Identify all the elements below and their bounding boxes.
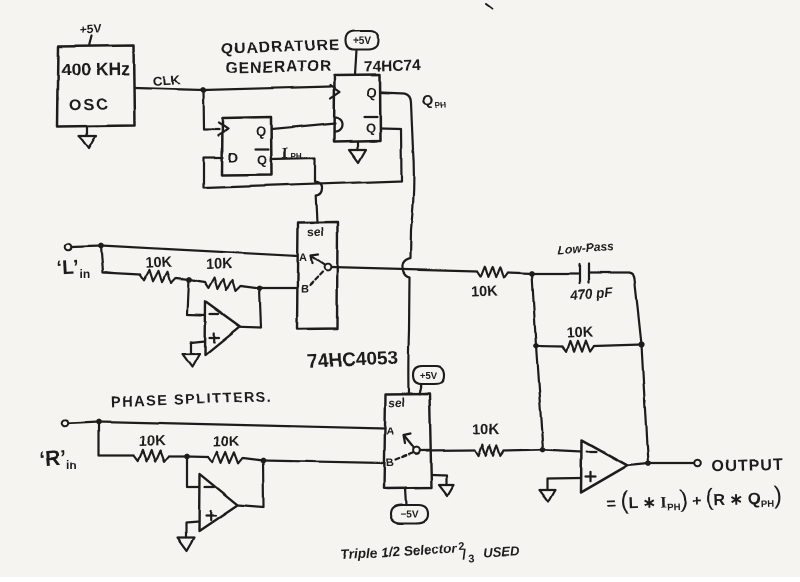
FF2 label Qbar xyxy=(364,117,377,136)
svg-text:I: I xyxy=(282,145,288,162)
node CLK junction xyxy=(200,87,206,93)
node L input junction xyxy=(98,243,104,249)
label QUADRATURE xyxy=(221,37,341,58)
svg-text:PH: PH xyxy=(435,101,446,110)
node RY junction xyxy=(260,458,266,464)
node RX junction xyxy=(184,454,190,460)
svg-text:sel: sel xyxy=(307,225,324,240)
wire FF2 Qbar feedback to FF1 D xyxy=(204,128,402,188)
wire U2 non-inverting to ground xyxy=(191,341,205,354)
label OSC xyxy=(69,96,110,114)
label node I_PH xyxy=(282,145,302,162)
sel1 label B xyxy=(301,284,309,296)
label 74HC74 xyxy=(364,57,422,76)
FF1 label Qbar xyxy=(256,149,269,168)
FF2 D input symbol xyxy=(335,118,342,132)
flip-flop FF1 (74HC74 half A) box xyxy=(222,117,272,176)
sel2 label A xyxy=(386,426,394,438)
resistor R5 10K (I-path) xyxy=(477,266,508,278)
node N2 junction xyxy=(638,341,644,347)
label R5 10K xyxy=(470,284,498,301)
svg-text:OUTPUT: OUTPUT xyxy=(712,456,784,475)
label 74HC4053 xyxy=(307,348,399,374)
svg-text:10K: 10K xyxy=(138,434,166,451)
svg-text:400 KHz: 400 KHz xyxy=(61,58,130,79)
resistor R2 10K (L) xyxy=(205,278,241,292)
svg-text:A: A xyxy=(386,426,394,438)
wire CLK down to FF1 clock xyxy=(203,90,219,130)
svg-text:OSC: OSC xyxy=(69,96,110,114)
svg-text:74HC74: 74HC74 xyxy=(364,57,422,76)
U5 plus sign xyxy=(586,472,596,481)
svg-text:‘R’: ‘R’ xyxy=(38,447,67,472)
svg-text:3: 3 xyxy=(469,553,476,565)
power +5V supply (OSC) xyxy=(79,21,102,46)
svg-text:10K: 10K xyxy=(145,254,173,271)
U2 minus sign xyxy=(210,313,219,315)
label Low-Pass xyxy=(557,240,614,257)
node LX junction xyxy=(186,277,192,283)
wire R1 to node LX xyxy=(176,278,189,280)
wire N3 to R6 xyxy=(536,345,562,348)
node summing junction xyxy=(540,447,546,453)
wire node N1 to capacitor C1 xyxy=(532,272,578,274)
sel2 label B xyxy=(386,457,394,469)
label output formula xyxy=(606,482,782,515)
wire right rail N2 down to output node xyxy=(642,345,649,464)
sel2 wiper pole xyxy=(413,447,420,454)
ground (FF2) xyxy=(349,142,366,163)
node N3 junction xyxy=(533,343,539,349)
node N1 junction xyxy=(529,271,535,277)
U2 plus sign xyxy=(210,333,220,342)
oscillator U1 400 KHz OSC box xyxy=(58,46,135,127)
sel2 arrow to A xyxy=(404,434,414,448)
wire CLK (OSC to node) xyxy=(135,88,204,90)
svg-text:B: B xyxy=(386,457,394,469)
resistor R1 10K (L) xyxy=(140,270,176,283)
FF1 D input symbol xyxy=(228,149,238,165)
svg-text:Low-Pass: Low-Pass xyxy=(557,240,614,257)
svg-text:PH: PH xyxy=(291,152,302,161)
label 400 KHz xyxy=(61,58,130,79)
wire R7 to summing node xyxy=(504,450,543,451)
wire L input to node xyxy=(72,246,101,247)
label R3 10K xyxy=(138,434,166,451)
svg-text:in: in xyxy=(80,267,91,281)
svg-text:‘L’: ‘L’ xyxy=(56,256,79,279)
label PHASE SPLITTERS xyxy=(111,389,273,411)
op-amp U3 (R inverter) triangle xyxy=(199,474,238,531)
label 'R'in xyxy=(38,447,77,473)
sel1 label A xyxy=(299,252,307,264)
svg-text:B: B xyxy=(301,284,309,296)
wire R4 to node RY xyxy=(243,458,263,461)
svg-text:Q: Q xyxy=(366,84,378,100)
label 470 pF xyxy=(569,284,614,302)
label R4 10K xyxy=(212,434,240,451)
svg-text:10K: 10K xyxy=(472,422,500,439)
wire U3 output feedback to node RY xyxy=(238,461,264,508)
wire node LX to resistor R2 xyxy=(189,280,205,283)
U3 plus sign xyxy=(206,511,216,520)
wire sel1 output to resistor R5 xyxy=(331,268,477,272)
wire node N1 down to node N3 xyxy=(532,274,536,347)
capacitor C1 470 pF xyxy=(580,264,589,283)
power -5V supply (74HC4053) xyxy=(391,489,428,524)
label OUTPUT xyxy=(712,456,784,475)
node LY junction xyxy=(257,286,263,292)
svg-text:Q: Q xyxy=(365,120,375,135)
wire R direct to sel2 A xyxy=(99,422,385,429)
label 'L'in xyxy=(56,256,91,281)
svg-text:USED: USED xyxy=(483,543,520,560)
svg-text:10K: 10K xyxy=(205,256,233,273)
wire R5 to node N1 xyxy=(508,273,532,274)
wire node N3 down to summing node xyxy=(536,346,543,450)
wire FF2 Q to sel2 (Q-phase) xyxy=(381,93,414,395)
label GENERATOR xyxy=(225,58,332,77)
FF1 label Q xyxy=(255,123,267,139)
resistor R3 10K (R) xyxy=(134,450,169,462)
wire U3 non-inverting to ground xyxy=(186,522,199,539)
sel2 dashed to B xyxy=(396,453,413,460)
ground (U5) xyxy=(539,490,555,502)
power +5V supply (74HC4053) xyxy=(413,366,444,395)
label R2 10K xyxy=(205,256,233,273)
svg-text:10K: 10K xyxy=(470,284,498,301)
scan speck xyxy=(486,4,492,9)
wire R to resistor R3 xyxy=(99,422,135,456)
FF1 clock input symbol xyxy=(219,123,229,136)
wire R3 to node RX xyxy=(169,455,187,457)
svg-text:−5V: −5V xyxy=(400,510,418,521)
label node Q_PH xyxy=(422,92,446,110)
wire node LY to sel1 B xyxy=(260,287,298,289)
label CLK xyxy=(152,72,181,89)
sel2 label sel xyxy=(388,395,405,410)
wire U5 output to terminal xyxy=(628,464,695,466)
wire U2 output feedback to node LY xyxy=(241,289,261,328)
resistor R6 10K (feedback) xyxy=(562,341,594,352)
label R7 10K xyxy=(472,422,500,439)
wire L to resistor R1 xyxy=(101,246,140,275)
ground (U2) xyxy=(183,354,200,367)
wire summing node to U5 inverting input xyxy=(543,450,582,452)
svg-text:10K: 10K xyxy=(212,434,240,451)
wire R6 to N2 xyxy=(594,345,642,347)
wire L direct to sel1 A xyxy=(101,246,298,257)
resistor R7 10K (Q-path) xyxy=(475,445,504,456)
mux U4a 74HC4053 sel box 1 xyxy=(297,222,338,329)
svg-text:470 pF: 470 pF xyxy=(569,284,614,302)
wire CLK to FF2 clock xyxy=(203,87,331,91)
U5 minus sign xyxy=(587,450,597,452)
svg-text:+5V: +5V xyxy=(79,21,102,36)
U3 minus sign xyxy=(205,486,214,488)
svg-text:+5V: +5V xyxy=(353,36,371,47)
op-amp U2 (L inverter) triangle xyxy=(205,302,240,356)
svg-text:D: D xyxy=(228,149,238,165)
terminal OUTPUT xyxy=(695,460,702,467)
FF2 clock input symbol xyxy=(331,85,341,98)
mux U4b 74HC4053 sel box 2 xyxy=(384,394,432,489)
wire FF1 Q to FF2 D xyxy=(272,124,336,130)
svg-text:A: A xyxy=(299,252,307,264)
ground (OSC) xyxy=(79,126,96,149)
svg-text:+5V: +5V xyxy=(420,370,438,381)
ground (74HC4053) xyxy=(432,475,455,496)
resistor R4 10K (R) xyxy=(208,452,243,464)
svg-text:GENERATOR: GENERATOR xyxy=(225,58,332,77)
node R input junction xyxy=(96,419,102,425)
op-amp U5 (output summer) triangle xyxy=(581,440,628,493)
label Triple selector note xyxy=(340,541,520,565)
wire R2 to node LY xyxy=(241,286,260,289)
node output junction xyxy=(645,461,651,467)
svg-text:Q: Q xyxy=(255,123,267,139)
wire node RY to sel2 B xyxy=(263,461,385,464)
wire node RX to resistor R4 xyxy=(187,455,208,458)
wire FF1 Qbar to sel1 (I-phase) xyxy=(272,159,323,223)
ground (U3) xyxy=(178,538,195,551)
wire C1 to right rail xyxy=(589,273,642,345)
wire sel2 output to resistor R7 xyxy=(420,449,475,452)
wire node RX to op-amp U3 inverting input xyxy=(187,457,200,488)
svg-text:in: in xyxy=(66,459,77,473)
wire node LX to op-amp U2 inverting input xyxy=(188,280,206,316)
wire U5 non-inverting to ground xyxy=(547,478,581,490)
svg-text:CLK: CLK xyxy=(152,72,181,89)
sel1 dashed to B xyxy=(310,272,324,286)
sel1 wiper pole xyxy=(324,264,331,271)
terminal 'R' input xyxy=(62,420,69,427)
svg-text:10K: 10K xyxy=(566,325,594,342)
flip-flop FF2 (74HC74 half B) box xyxy=(334,75,381,142)
svg-text:sel: sel xyxy=(388,395,405,410)
label R1 10K xyxy=(145,254,173,271)
svg-text:Q: Q xyxy=(422,92,434,109)
label R6 10K xyxy=(566,325,594,342)
sel1 arrow to A xyxy=(311,255,325,266)
sel1 label sel xyxy=(307,225,324,240)
FF2 label Q xyxy=(366,84,378,100)
terminal 'L' input xyxy=(65,243,72,250)
wire R input to node xyxy=(68,422,98,424)
svg-text:Q: Q xyxy=(257,153,267,168)
power +5V supply (74HC74) xyxy=(346,31,379,76)
